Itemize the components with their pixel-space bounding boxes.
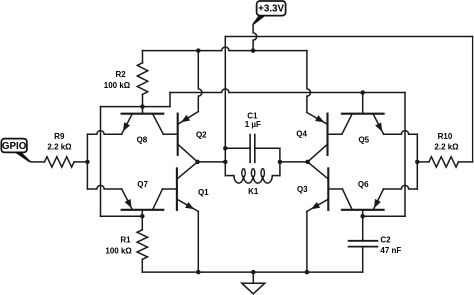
svg-text:Q2: Q2 (196, 130, 207, 139)
svg-text:Q1: Q1 (198, 188, 209, 197)
svg-text:Q8: Q8 (137, 136, 148, 145)
svg-text:Q5: Q5 (358, 135, 369, 144)
svg-text:100 kΩ: 100 kΩ (105, 247, 132, 256)
svg-text:R1: R1 (120, 235, 131, 244)
svg-text:1 µF: 1 µF (245, 120, 261, 129)
svg-text:Q3: Q3 (297, 185, 308, 194)
svg-text:K1: K1 (248, 187, 259, 196)
svg-text:2.2 kΩ: 2.2 kΩ (47, 142, 72, 151)
svg-text:Q6: Q6 (358, 180, 369, 189)
svg-text:+3.3V: +3.3V (258, 4, 284, 15)
svg-text:100 kΩ: 100 kΩ (104, 81, 131, 90)
svg-text:GPIO: GPIO (2, 141, 27, 152)
svg-text:Q7: Q7 (137, 180, 148, 189)
svg-text:47 nF: 47 nF (380, 246, 401, 255)
svg-text:R10: R10 (438, 132, 453, 141)
svg-text:2.2 kΩ: 2.2 kΩ (434, 143, 459, 152)
svg-text:Q4: Q4 (296, 129, 307, 138)
svg-text:C2: C2 (380, 235, 391, 244)
svg-text:R2: R2 (115, 70, 126, 79)
svg-text:R9: R9 (54, 132, 65, 141)
